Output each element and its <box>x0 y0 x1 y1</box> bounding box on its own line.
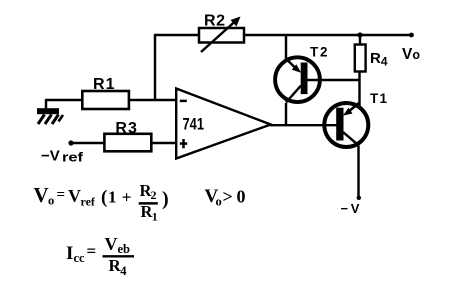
node -Vref terminal dot <box>68 140 73 145</box>
svg-text:R3: R3 <box>115 120 137 137</box>
wire T2 collector drop to output line <box>285 103 287 125</box>
svg-text:ref: ref <box>62 151 84 165</box>
wire T2 base to R4 branch <box>308 79 360 81</box>
wire feedback vertical <box>154 34 156 100</box>
node -V terminal dot <box>357 196 361 200</box>
op-amp U1 741 <box>176 89 271 159</box>
svg-text:o: o <box>48 194 54 208</box>
wire junction to R4 <box>359 35 361 45</box>
svg-text:Vo: Vo <box>402 46 420 63</box>
equation Vo > 0 <box>205 186 246 209</box>
svg-text:−V: −V <box>41 148 60 165</box>
svg-text:1: 1 <box>152 209 158 223</box>
svg-text:ref: ref <box>81 195 96 209</box>
svg-text:4: 4 <box>120 264 127 278</box>
wire top rail left segment <box>155 34 199 36</box>
wire R1 to op-amp inverting input <box>129 99 177 101</box>
equation Vo = Vref (1 + R2/R1) <box>34 181 169 223</box>
wire R1 input <box>46 99 82 109</box>
wire top rail to T2 <box>285 35 287 59</box>
node Vo (end dot) <box>409 33 414 38</box>
svg-text:): ) <box>162 188 169 210</box>
svg-text:=: = <box>87 242 97 261</box>
wire R3 to op-amp non-inverting input <box>151 142 177 144</box>
wire R4 to T1 emitter <box>358 72 360 107</box>
svg-text:2: 2 <box>151 188 157 202</box>
svg-text:− V: − V <box>341 201 360 216</box>
svg-text:R2: R2 <box>204 13 225 30</box>
equation Icc = Veb / R4 <box>66 234 134 278</box>
resistor R4 <box>355 45 366 72</box>
svg-text:V: V <box>68 186 81 206</box>
svg-text:eb: eb <box>118 242 131 256</box>
svg-text:1: 1 <box>380 91 388 106</box>
resistor R3 <box>104 134 151 152</box>
wire -Vref to R3 <box>71 142 104 144</box>
transistor T1 <box>324 103 368 147</box>
svg-text:>: > <box>223 187 233 207</box>
svg-text:T: T <box>310 45 319 60</box>
svg-text:o: o <box>216 195 222 209</box>
svg-text:cc: cc <box>74 251 86 265</box>
node junction top rail / R4 <box>357 32 362 37</box>
resistor R1 <box>82 91 129 109</box>
wire op-amp output to T1 base <box>270 124 338 126</box>
svg-text:=: = <box>57 187 66 203</box>
svg-text:V: V <box>34 183 49 207</box>
svg-text:V: V <box>105 234 118 254</box>
wire top rail right segment <box>244 34 412 36</box>
transistor T2 <box>275 57 320 102</box>
resistor R2 (variable) <box>199 17 244 53</box>
svg-text:R1: R1 <box>93 76 115 93</box>
svg-text:2: 2 <box>320 45 328 60</box>
svg-text:+: + <box>122 188 132 207</box>
wire T1 collector to -V <box>357 146 359 198</box>
svg-text:T: T <box>370 91 379 106</box>
svg-text:0: 0 <box>237 187 246 207</box>
svg-text:741: 741 <box>183 115 205 134</box>
svg-text:I: I <box>66 243 73 264</box>
svg-text:(: ( <box>101 187 107 208</box>
ground <box>37 108 63 124</box>
svg-text:1: 1 <box>108 188 117 207</box>
